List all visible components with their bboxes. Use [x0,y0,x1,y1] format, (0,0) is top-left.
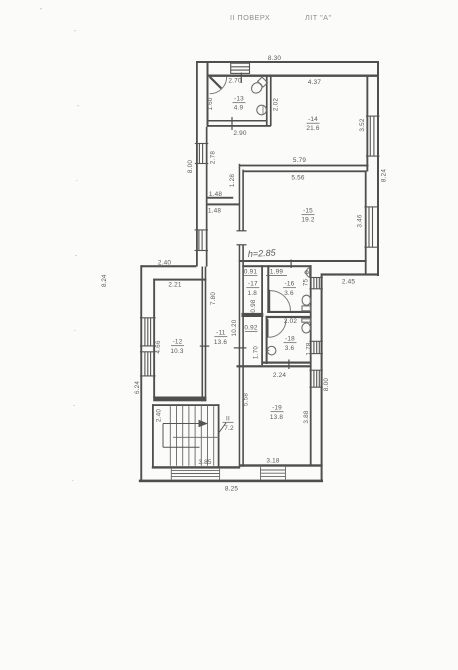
svg-text:1.78: 1.78 [305,342,312,355]
wall: room 12 bottom thick [153,397,206,402]
window W5 room 16 right wall [309,278,322,289]
door room 16 (hinge bottom-left) [268,290,290,311]
svg-text:1.8: 1.8 [248,290,258,297]
door arc room 13 [210,77,227,94]
svg-text:0.92: 0.92 [244,325,257,332]
wall: lower-right inner face [310,265,312,466]
svg-text:2.02: 2.02 [273,98,280,111]
fraction bars of room labels [171,103,320,423]
wall: upper block right outer [377,61,379,276]
window W3 room 14 right wall [366,116,380,156]
faint scan artifacts left margin [40,8,79,481]
svg-text:1.60: 1.60 [207,97,214,110]
wall: room 12 right line A [202,267,204,402]
svg-text:2.78: 2.78 [209,151,216,164]
wall: room 14 right inner [366,76,368,172]
wall: room 18 bottom line [263,362,312,364]
svg-text:8.24: 8.24 [381,169,388,182]
door room 18 (hinge top-left) [267,319,287,337]
exterior steps below room 19 [261,467,286,480]
wall: building bottom outer [139,480,323,483]
window W2 left wall lower [195,230,209,251]
svg-text:2.24: 2.24 [273,372,286,379]
wall: upper block top outer [197,61,380,63]
wall: room 13 / room 14 divider [266,76,268,126]
underline dim 0.92 [245,330,258,332]
svg-text:-14: -14 [308,116,318,123]
wall: rooms 16/18 divider upper line [267,311,311,313]
wall: middle block left outer [140,265,142,482]
svg-text:13.6: 13.6 [214,339,227,346]
window W8 room 12 left wall upper [140,318,156,346]
leader line for stairs label [219,423,226,433]
exterior steps below stairs [171,469,219,480]
wall: rooms 17/16 top line [242,265,311,267]
tick: dim mark room18/19 wall [288,360,289,370]
svg-text:-13: -13 [234,96,244,103]
svg-text:3.46: 3.46 [357,214,364,227]
svg-text:6.24: 6.24 [134,381,141,394]
wall: room 17 right [261,265,263,365]
svg-text:4.37: 4.37 [308,79,321,86]
window W4 room 15 right wall [364,207,378,247]
tick: dim mark rooms15/16 band [291,260,292,269]
svg-text:-16: -16 [285,281,295,288]
wall: room 15 right inner [365,171,367,274]
svg-text:5.79: 5.79 [293,157,306,164]
svg-text:1.48: 1.48 [208,208,221,215]
wall: right step (2.45) [321,273,379,275]
wall: stairs box top [152,404,220,406]
svg-text:-15: -15 [303,208,313,215]
svg-text:-12: -12 [173,339,183,346]
svg-text:10.3: 10.3 [170,348,183,355]
svg-text:8.30: 8.30 [268,55,281,62]
wall: stairs box right [218,404,220,467]
svg-text:2.70: 2.70 [228,78,241,85]
wall: room 13 bottom (upper line) [207,120,268,122]
sink room 13 [257,105,267,115]
wall: room 12 right line B [205,267,207,402]
toilet room 16 [302,295,311,311]
svg-text:3.18: 3.18 [266,458,279,465]
svg-text:3.85: 3.85 [198,459,211,466]
wall: room 15 bottom (upper line) [239,260,367,262]
wall: upper block left outer [196,61,198,267]
tick: dim mark on room13 bottom wall [231,117,232,130]
svg-text:-19: -19 [272,405,282,412]
svg-text:5.56: 5.56 [291,175,304,182]
wall: room 19 bottom [240,464,323,466]
wall: middle block top [141,265,197,267]
svg-text:2.02: 2.02 [284,318,297,325]
sink room 16 [305,268,310,278]
wall: room 13 left inner [207,63,209,127]
dimension texts vertical (rotated) [134,97,388,423]
wall: stairs box left [152,404,154,467]
svg-text:10.20: 10.20 [231,319,238,336]
svg-text:3.6: 3.6 [285,345,295,352]
underline dim 1.99 [266,275,287,277]
svg-text:II ПОВЕРХ: II ПОВЕРХ [230,13,270,22]
svg-text:1.99: 1.99 [270,269,283,276]
svg-text:5.58: 5.58 [242,393,249,406]
window W7 room 19 right wall [309,370,322,387]
wall: corridor/room15 west line A [239,164,241,231]
wall: vestibule cross wall A (1.48) [207,197,234,199]
svg-text:2.40: 2.40 [156,409,163,422]
wall: vestibule cross wall B (1.48) [207,203,240,205]
svg-text:-11: -11 [216,330,226,337]
svg-text:7.80: 7.80 [210,292,217,305]
tick: room 15 door opening bottom [237,244,247,245]
wall: rooms 14/15 divider lower line [244,170,367,172]
svg-text:8.24: 8.24 [101,274,108,287]
tick: dim mark corridor right wall [234,347,247,348]
svg-text:7.2: 7.2 [224,425,234,432]
stair treads [170,406,213,466]
svg-text:0.98: 0.98 [250,299,257,312]
wall: stairs+corridor bottom [152,466,240,468]
underline dim 0.91 [244,275,258,277]
svg-text:3.52: 3.52 [359,118,366,131]
tick: dim mark room12 right wall [200,346,210,347]
svg-text:2.40: 2.40 [158,260,171,267]
svg-text:13.8: 13.8 [270,414,283,421]
wall: room 13 bottom (lower line) [207,125,271,127]
wall: room 17 bottom thick band [242,313,264,317]
tick: dim mark on room13 top wall [241,73,242,84]
svg-text:1.28: 1.28 [229,174,236,187]
wall: room 12 left inner [153,279,155,399]
window W1 left wall upper [195,144,209,164]
window W6 room 18 right wall [309,341,322,353]
svg-text:8.00: 8.00 [323,378,330,391]
wall: lower-right outer face [321,273,323,482]
tick: room 15 door opening top [237,230,247,231]
toilet room 13 (tilted 45°) [249,76,268,95]
wall: rooms 14/15 divider upper line [239,165,369,167]
wall: room 12 top [153,279,206,281]
chimney flue box at top wall [231,63,250,73]
svg-text:3.88: 3.88 [303,410,310,423]
stair landing line [173,436,220,438]
window W9 room 12 left wall lower [140,352,156,376]
wall: corridor/room15 west line B [242,170,244,231]
wall: vestibule inner left face [206,127,208,267]
svg-text:-17: -17 [248,281,258,288]
svg-text:4.66: 4.66 [155,340,162,353]
svg-text:8.25: 8.25 [225,486,238,493]
svg-text:4.9: 4.9 [234,105,244,112]
svg-text:2.90: 2.90 [233,130,246,137]
svg-text:75: 75 [303,279,310,287]
dimension texts horizontal [158,55,355,493]
svg-text:19.2: 19.2 [301,217,314,224]
svg-text:8.00: 8.00 [187,160,194,173]
svg-text:-18: -18 [285,336,295,343]
washbasin room 18 [267,346,276,355]
svg-text:II: II [226,416,230,423]
svg-text:h=2.85: h=2.85 [248,248,277,259]
svg-text:21.6: 21.6 [306,125,319,132]
wall: room 16 left [267,265,269,313]
svg-text:2.21: 2.21 [168,282,181,289]
svg-text:3.6: 3.6 [284,290,294,297]
svg-text:0.91: 0.91 [244,269,257,276]
toilet room 18 [302,319,311,333]
stair walk line with arrow [163,424,201,448]
wall: rooms 16/18 divider lower line [266,316,312,318]
svg-text:2.45: 2.45 [342,279,355,286]
svg-text:1.48: 1.48 [209,191,222,198]
svg-text:ЛIТ "А": ЛIТ "А" [305,13,332,22]
svg-text:1.70: 1.70 [252,346,259,359]
wall: room 19 top line [237,365,312,367]
wall: rooms 13/14 top [207,75,378,77]
wall: room 18 left [266,316,268,364]
